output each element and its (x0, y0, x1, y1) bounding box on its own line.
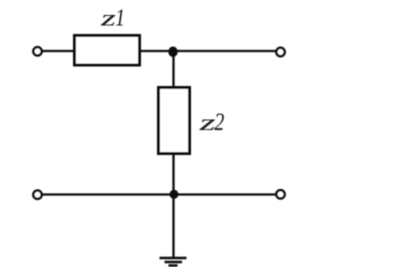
svg-text:z: z (198, 110, 216, 136)
svg-text:1: 1 (115, 5, 125, 32)
svg-text:2: 2 (214, 109, 224, 136)
svg-text:z: z (99, 5, 116, 30)
